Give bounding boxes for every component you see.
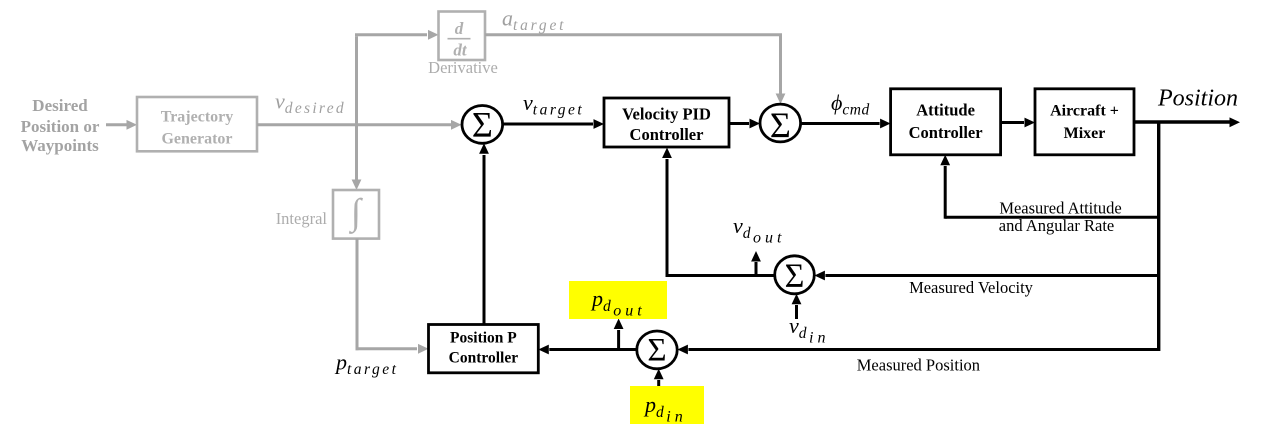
svg-text:Trajectory: Trajectory <box>161 109 234 126</box>
wire S3 to Velocity PID Controller bottom <box>662 148 775 278</box>
svg-text:Generator: Generator <box>161 131 232 148</box>
svg-text:Controller: Controller <box>909 123 983 142</box>
svg-text:Σ: Σ <box>785 258 805 295</box>
node p_d_in highlighted label <box>630 386 704 426</box>
wire S4 to Position P Controller <box>538 345 637 355</box>
svg-text:and Angular Rate: and Angular Rate <box>999 216 1114 235</box>
svg-text:Derivative: Derivative <box>428 58 498 77</box>
wire v_d_in input arrow into S3 <box>792 294 802 319</box>
svg-text:Σ: Σ <box>770 105 791 145</box>
svg-text:Controller: Controller <box>630 125 704 144</box>
svg-text:Position P: Position P <box>450 330 517 347</box>
svg-text:vtarget: vtarget <box>523 90 584 119</box>
summing junction S4 <box>637 331 677 369</box>
svg-text:Position or: Position or <box>21 117 100 136</box>
svg-text:vdesired: vdesired <box>275 89 346 118</box>
wire v_d_out takeoff arrow <box>751 251 761 276</box>
svg-text:Mixer: Mixer <box>1064 125 1106 142</box>
wire a_target: Derivative to sum S2 <box>485 35 785 104</box>
node label Measured Attitude and Angular Rate <box>999 199 1122 236</box>
svg-text:Attitude: Attitude <box>916 101 975 120</box>
svg-text:vdout: vdout <box>733 213 785 247</box>
block Trajectory Generator <box>137 97 257 151</box>
svg-text:vdin: vdin <box>789 313 829 347</box>
wire Position P Controller output up into S1 <box>479 143 489 324</box>
wire Attitude Controller to Aircraft + Mixer <box>1001 118 1035 128</box>
svg-text:Integral: Integral <box>276 209 328 228</box>
svg-text:Measured Velocity: Measured Velocity <box>909 278 1034 297</box>
wire phi_cmd: S2 to Attitude Controller <box>801 119 891 129</box>
svg-text:Aircraft +: Aircraft + <box>1050 103 1119 120</box>
svg-text:Waypoints: Waypoints <box>21 136 99 155</box>
summing junction S1 <box>462 105 503 145</box>
svg-text:Velocity PID: Velocity PID <box>622 105 711 124</box>
wire Measured Position into sum S4 <box>677 345 1160 355</box>
wire p_d_in input arrow into S4 <box>654 369 664 387</box>
svg-text:ϕcmd: ϕcmd <box>831 90 870 119</box>
block Velocity PID Controller <box>604 98 729 147</box>
wire Position output <box>1134 117 1240 127</box>
svg-text:dt: dt <box>453 41 468 60</box>
node p_d_out highlighted label <box>569 281 667 320</box>
wire Measured Attitude feedback into Attitude Controller <box>940 155 1160 219</box>
summing junction S3 <box>775 256 815 295</box>
svg-text:ptarget: ptarget <box>334 350 398 379</box>
wire p_d_out takeoff arrow <box>614 319 624 350</box>
svg-text:Measured Position: Measured Position <box>857 356 980 375</box>
svg-text:Σ: Σ <box>647 332 666 368</box>
block Derivative d/dt <box>439 12 486 61</box>
block Attitude Controller <box>891 89 1001 155</box>
svg-text:Measured Attitude: Measured Attitude <box>999 199 1121 218</box>
svg-text:atarget: atarget <box>502 6 566 35</box>
node Desired Position or Waypoints label <box>21 96 100 155</box>
svg-text:Σ: Σ <box>472 105 493 145</box>
block Aircraft + Mixer <box>1035 89 1134 155</box>
svg-text:Position: Position <box>1157 86 1238 112</box>
wire Velocity PID Controller to sum S2 <box>729 119 760 129</box>
wire Measured Velocity into sum S3 <box>814 271 1160 281</box>
wire v_target: S1 to Velocity PID Controller <box>503 119 604 129</box>
wire branch from v_desired up to Derivative and down to Integral <box>352 30 439 190</box>
wire arrow into Trajectory Generator <box>106 120 137 130</box>
svg-text:Controller: Controller <box>449 350 519 367</box>
svg-text:d: d <box>455 19 464 38</box>
block Position P Controller <box>429 325 539 373</box>
block Integral <box>333 190 379 239</box>
svg-text:∫: ∫ <box>348 192 363 234</box>
summing junction S2 <box>760 104 801 145</box>
wire feedback trunk (right vertical) <box>1157 122 1160 351</box>
wire v_desired: Trajectory Generator to sum S1 <box>257 120 462 130</box>
wire p_target: Integral to Position P Controller <box>356 239 429 354</box>
svg-text:Desired: Desired <box>32 96 88 115</box>
